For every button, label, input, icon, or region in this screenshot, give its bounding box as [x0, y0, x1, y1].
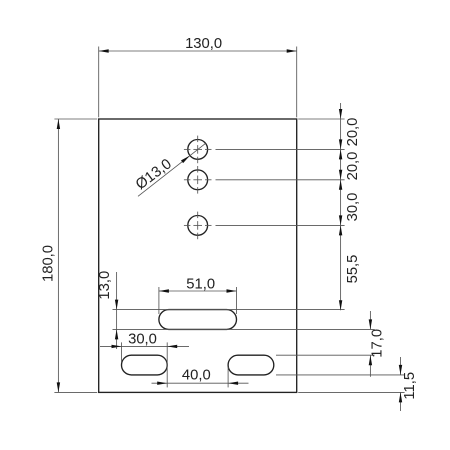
- svg-text:20,0: 20,0: [345, 152, 361, 181]
- svg-text:30,0: 30,0: [128, 332, 157, 348]
- svg-text:17,0: 17,0: [370, 329, 386, 358]
- svg-text:20,0: 20,0: [345, 118, 361, 147]
- svg-text:11,5: 11,5: [402, 372, 418, 400]
- svg-text:51,0: 51,0: [186, 277, 215, 293]
- svg-text:55,5: 55,5: [345, 255, 361, 284]
- svg-text:180,0: 180,0: [41, 245, 57, 282]
- svg-text:30,0: 30,0: [345, 193, 361, 222]
- svg-text:13,0: 13,0: [97, 271, 113, 300]
- svg-text:130,0: 130,0: [185, 36, 222, 52]
- svg-text:40,0: 40,0: [182, 368, 211, 384]
